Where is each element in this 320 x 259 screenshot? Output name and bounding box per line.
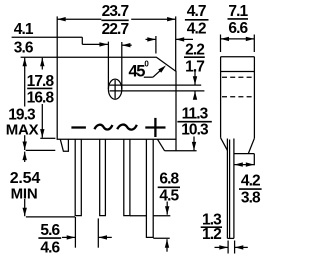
svg-text:7.1: 7.1 [228, 3, 248, 20]
svg-text:22.7: 22.7 [102, 21, 129, 38]
svg-text:0: 0 [144, 59, 149, 68]
svg-text:4.2: 4.2 [187, 20, 206, 37]
svg-text:1.7: 1.7 [185, 59, 204, 76]
svg-text:5.6: 5.6 [40, 222, 60, 239]
svg-text:17.8: 17.8 [27, 73, 55, 90]
svg-text:4.5: 4.5 [159, 188, 179, 205]
svg-text:1.2: 1.2 [202, 226, 221, 243]
svg-text:45: 45 [129, 62, 146, 80]
svg-text:2.2: 2.2 [185, 41, 204, 58]
svg-text:6.6: 6.6 [228, 20, 248, 37]
svg-text:4.1: 4.1 [14, 21, 34, 38]
svg-text:4.6: 4.6 [40, 240, 60, 257]
svg-text:10.3: 10.3 [181, 121, 209, 138]
svg-text:3.6: 3.6 [14, 40, 34, 57]
svg-text:4.7: 4.7 [187, 3, 206, 20]
svg-text:4.2: 4.2 [241, 173, 260, 190]
svg-text:16.8: 16.8 [27, 89, 55, 106]
svg-text:11.3: 11.3 [182, 105, 209, 122]
svg-text:23.7: 23.7 [102, 3, 129, 20]
svg-text:3.8: 3.8 [241, 190, 261, 207]
svg-text:MIN: MIN [11, 185, 38, 202]
svg-text:MAX: MAX [6, 121, 39, 138]
svg-text:6.8: 6.8 [159, 171, 179, 188]
